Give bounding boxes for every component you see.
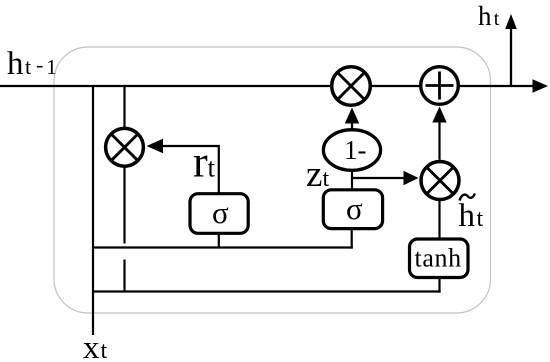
svg-text:r: r xyxy=(193,138,208,187)
sigma box 2 (update gate) xyxy=(323,190,382,229)
multiply node (candidate apply) xyxy=(421,162,459,200)
svg-text:z: z xyxy=(306,154,322,195)
sigma box 1 (reset gate) xyxy=(190,194,248,234)
wire: tanh bottom down to line2 xyxy=(438,278,440,293)
wire: h(t) output vertical xyxy=(510,27,512,86)
svg-text:t: t xyxy=(494,8,500,30)
svg-text:h: h xyxy=(478,1,492,31)
wire: sigma2 bottom to line1 xyxy=(351,229,353,249)
wire+arrowhead: ellipse to update multiply xyxy=(351,122,353,131)
svg-text:σ: σ xyxy=(346,191,363,226)
svg-text:x: x xyxy=(83,330,100,362)
multiply node (reset) circle with X xyxy=(106,128,144,166)
add node on main line xyxy=(421,67,459,105)
wire: candidate multiply down to tanh xyxy=(438,200,440,239)
wire: z vertical (sigma2 top to ellipse bottom) xyxy=(351,170,353,190)
svg-text:t: t xyxy=(101,338,108,362)
arrowhead: right end of main line xyxy=(533,79,549,93)
wire+arrowhead: z branch right into candidate multiply xyxy=(351,177,405,179)
wire: reset branch vertical below circle (hops line1) xyxy=(123,166,125,243)
svg-text:h: h xyxy=(7,46,24,82)
svg-text:t: t xyxy=(25,54,31,79)
arrowhead: into reset multiply xyxy=(147,139,164,153)
tanh box xyxy=(410,239,469,278)
svg-text:h: h xyxy=(459,198,476,234)
wire: left vertical from main line down to x(t) xyxy=(92,86,94,335)
svg-text:t: t xyxy=(208,153,216,183)
wire: inner horizontal line 1 xyxy=(92,246,353,248)
svg-text:σ: σ xyxy=(212,195,229,230)
wire: main h(t-1) -> h(t) horizontal line xyxy=(0,85,535,87)
arrowhead: h(t) output up xyxy=(505,14,517,29)
wire: sigma1 top up then left xyxy=(163,146,219,194)
wire: sigma1 bottom to line1 xyxy=(218,233,220,247)
svg-text:1-: 1- xyxy=(344,135,367,165)
svg-text:1: 1 xyxy=(46,55,57,79)
wire: inner horizontal line 2 xyxy=(92,290,441,292)
wire+arrowhead: candidate multiply up to add node xyxy=(438,121,440,160)
svg-text:t: t xyxy=(323,166,330,192)
wire: reset branch vertical upper segment xyxy=(123,86,125,130)
svg-text:t: t xyxy=(477,206,484,232)
svg-text:tanh: tanh xyxy=(415,243,462,272)
cell boundary rounded rectangle xyxy=(54,47,491,313)
multiply node (update apply) on main line xyxy=(332,67,371,106)
ellipse node 1- xyxy=(323,130,380,171)
svg-text:-: - xyxy=(36,52,43,77)
